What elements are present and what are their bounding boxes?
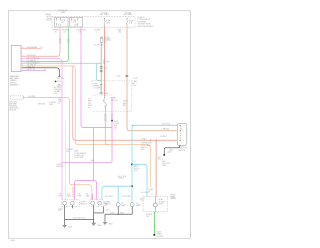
svg-text:S240: S240 [49,104,53,106]
svg-text:0.8 DK PNK 140: 0.8 DK PNK 140 [27,57,39,59]
svg-text:SW: SW [123,105,126,107]
wire tag on pink drop [59,39,61,43]
wire GRN trailer to ground [153,212,155,234]
wire LT BLU branch down to license lamp [117,186,119,202]
node: label above fuse 3 [100,11,109,16]
splice dot license [118,214,119,215]
wire PNK pale vertical to lamp pin B [64,120,66,200]
node: label above fuse 4 [124,11,133,16]
front park lamp LEFT dashed box [62,200,80,207]
front park lamp RIGHT dashed box [90,200,104,207]
svg-text:0.8 DK GRN: 0.8 DK GRN [99,93,109,95]
switch internals [179,125,183,140]
wire BLK from switch box to ground [164,145,180,154]
fuse block U1 dashed box [52,16,135,27]
right lamp pin stub B [92,194,94,200]
svg-text:150: 150 [58,210,61,212]
license lamp pin labels [105,196,132,198]
svg-text:140: 140 [54,93,57,95]
svg-text:G103: G103 [68,227,72,229]
svg-text:MODULE: MODULE [9,110,17,112]
text block left of red vertical [141,143,152,152]
svg-text:C2: C2 [41,47,43,49]
svg-text:C202: C202 [103,67,107,69]
svg-text:CROSS: CROSS [157,236,164,238]
license bulb 1 [116,203,120,207]
svg-text:0.8 WHT: 0.8 WHT [160,136,167,138]
wire LT BLU horizontal to switch box [131,124,178,126]
border frame [8,11,190,239]
wire ORN row6 elbow down [22,66,150,187]
note text left of fuse block [45,14,52,21]
steering column dashed boundary box [92,81,132,111]
svg-text:ALL TIMES: ALL TIMES [124,13,133,16]
svg-text:140: 140 [66,151,69,153]
svg-text:TIMES: TIMES [60,12,66,14]
svg-text:0.8 PNK/WHT: 0.8 PNK/WHT [27,47,38,49]
svg-text:C2: C2 [58,103,60,105]
svg-text:SEE FUSE DETAILS: SEE FUSE DETAILS [138,25,155,28]
park lamp relay dashed box left [11,96,24,100]
svg-text:C2: C2 [114,129,116,131]
ground dot G303 [153,234,155,236]
wire PNK row2 elbow up to fuse pin1 [22,27,60,56]
svg-text:2: 2 [96,31,97,33]
text right of tan vertical near switch [123,101,128,107]
license bulb 2 [130,203,134,207]
left lamp label [80,201,88,205]
lamp assy label right of box [170,195,177,201]
svg-text:PNK 140: PNK 140 [57,166,64,168]
switch name text below box [10,75,20,87]
svg-text:0.8 DK PNK: 0.8 DK PNK [74,157,84,159]
wire BRN stub to left lamp pin C [72,187,74,198]
label above ORN elbow [54,87,61,95]
svg-text:S409: S409 [91,160,95,162]
headlamp switch connector box [11,45,21,71]
ground dot G [163,154,165,156]
svg-text:460: 460 [119,31,122,33]
wire BLK left lamp to ground [65,205,73,225]
svg-text:SWITCH: SWITCH [179,150,186,152]
pin labels left lamp [59,194,91,198]
note list right of fuse block [138,17,155,28]
wire BLK right lamp to ground [93,205,95,223]
svg-text:0.8 LT BLU: 0.8 LT BLU [162,123,171,125]
inline connector on tan wire [125,75,128,76]
wire TAN from fuse pin5 down and right to dimmer box [127,27,177,131]
junction dot red [155,140,156,141]
pin ticks on green wire lower [100,85,102,93]
right lamp label [104,201,112,205]
text block above S409 area [74,151,86,160]
svg-text:0.8 LT BLU: 0.8 LT BLU [105,196,114,198]
wire LT BLU branch left to lamps [131,185,133,187]
svg-text:S302: S302 [120,213,124,215]
pin label left [140,198,145,202]
svg-text:24: 24 [103,63,105,65]
stop lamp switch box [177,124,187,146]
svg-text:PARK LP: PARK LP [80,202,88,205]
svg-text:L 0906: L 0906 [10,240,15,242]
wire ORN long horizontal to right [73,137,178,140]
BRN wire label mid [66,149,73,153]
svg-text:0.8 LT BLU: 0.8 LT BLU [123,196,132,198]
gray wire tag on ORN vertical [104,114,106,121]
wire RED down to lamp [155,140,157,196]
G303 label [157,231,164,237]
svg-text:0.8 ORN: 0.8 ORN [28,96,35,98]
svg-text:ASSEMBLY: ASSEMBLY [10,84,20,87]
trailer bulb [153,203,157,207]
right lamp bulb 1 [91,201,95,205]
label below ORN elbow [49,102,56,106]
wire BLK row7 to ground pin [22,68,60,77]
wire tag on green drop [68,39,70,43]
wire LT BLU branch right to trailer connector [132,164,147,196]
svg-text:C410: C410 [134,170,138,172]
wire DK PNK row3 elbow down to lamps [22,59,62,200]
svg-text:150: 150 [169,151,172,153]
svg-text:G104: G104 [97,225,101,227]
svg-text:C2: C2 [167,152,169,154]
svg-text:24 S413: 24 S413 [118,178,124,180]
label below trailer box [146,214,153,218]
wire BLK license lamps to ground [105,207,132,223]
svg-text:150: 150 [146,216,149,218]
wire LT BLU down from elbow [132,125,135,202]
connector pin stubs [21,48,22,70]
trailer connector dashed box [143,197,167,212]
svg-text:1 BLK 150: 1 BLK 150 [56,78,64,80]
pin label rows left column [58,98,62,105]
splice S411 label [134,164,140,171]
inline connector ticks on green wire [100,67,103,72]
svg-text:LAMPS: LAMPS [170,197,177,200]
left lamp bulb 1 [63,201,67,205]
svg-text:ALL TIMES: ALL TIMES [100,13,109,16]
DRL pin tick [22,96,24,98]
svg-text:SEE DRL: SEE DRL [38,103,45,105]
ground symbol left G103 [63,225,67,227]
svg-text:C2: C2 [44,69,46,71]
svg-text:0.8 DK GRN: 0.8 DK GRN [94,44,104,46]
wire DK PNK from fuse pin3 down to splice S [81,27,112,127]
horn switch dashed divider [92,94,114,96]
wire PNK/WHT row1 [22,47,42,49]
relay K2 pins [72,19,78,26]
horn relay terminal symbol [101,37,103,42]
wire DK PNK from horn switch down to S409 [111,97,113,162]
wire labels on vertical bundle [88,98,92,109]
DRL module label [9,102,19,112]
svg-text:C2: C2 [88,107,90,109]
tick on red wire [149,139,151,142]
wire tag on magenta [111,114,113,119]
steering column label [93,84,101,90]
fuse F4 [126,17,129,20]
horn relay label [104,37,111,44]
svg-text:39: 39 [55,32,57,34]
wire DK GRN row5 long teal to column [22,63,101,80]
svg-text:COLUMN: COLUMN [93,88,101,90]
wire DK PNK branch down to lamps [93,128,95,181]
bulb labels [105,203,142,207]
ground label [162,161,170,167]
wire ORN from DRL module to lamps [23,97,92,199]
wire DK PNK staple outer [74,181,96,200]
wire GRN from relay down into column [100,43,102,95]
node: title text above fuse block [58,9,67,14]
ground symbol license [103,222,107,224]
relay sub-box K1 [55,17,69,27]
label left of S409 run [57,164,64,168]
svg-text:0.8 LT BLU: 0.8 LT BLU [141,192,150,194]
wire PPL row8 [22,70,46,72]
horn switch label [111,98,118,102]
svg-text:C100: C100 [116,76,120,78]
svg-text:0.8 PPL 60: 0.8 PPL 60 [27,69,35,71]
left lamp bulb 2 [70,201,74,205]
wire GRN row4 elbow up to fuse pin2 [22,27,69,61]
svg-text:C100: C100 [132,85,136,87]
svg-text:C100: C100 [133,78,137,80]
switch box label [179,145,188,151]
svg-text:1 TAN 460: 1 TAN 460 [161,127,169,130]
svg-text:C2: C2 [104,42,106,44]
wire DK PNK horizontal S409 run [62,161,112,163]
svg-text:S214: S214 [57,81,61,83]
trailer box label [159,199,165,205]
wire ORN from horn switch down [105,111,108,144]
splice dot S329 [111,120,113,122]
horn switch symbol [103,95,107,111]
pin labels above box [141,192,154,196]
splice label S329 [114,121,120,131]
svg-text:G401: G401 [162,165,166,167]
wire RED from fuse pin4 down to horn switch [104,27,106,95]
splice dot on LT BLU [131,164,133,166]
svg-text:BLOCK: BLOCK [46,20,53,22]
svg-text:S116 1 BLK 150: S116 1 BLK 150 [73,218,85,220]
right lamp bulb 2 [98,201,102,205]
relay K1 pins [57,19,61,26]
svg-text:G302: G302 [109,224,113,226]
text right of tan connector [132,80,137,87]
wire RED elbow right to stop lamp switch [72,67,74,138]
fuse F3 [103,17,106,20]
svg-text:24: 24 [64,32,66,34]
ground symbol right G104 [92,223,96,225]
relay sub-box K2 [70,17,83,27]
splice crossbar [65,207,104,220]
svg-text:2 RED: 2 RED [141,139,147,141]
